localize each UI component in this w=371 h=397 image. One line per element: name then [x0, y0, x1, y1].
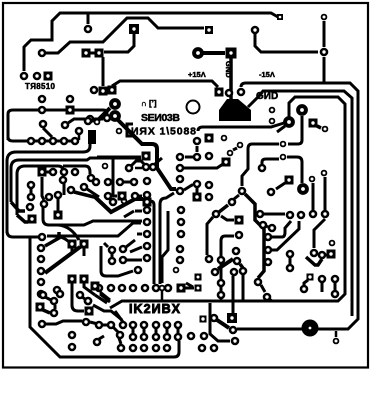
wire o4: [95, 295, 107, 303]
wire bus feed: [112, 81, 218, 87]
pad square (239,220): [235, 216, 244, 225]
wire o5: [93, 305, 122, 320]
pad square (86,53): [82, 49, 91, 58]
pad small (162,288): [159, 285, 166, 292]
wire n2: [54, 305, 57, 309]
wire n1: [45, 297, 51, 300]
pad (241,92): [237, 88, 246, 97]
pad (325,214): [321, 210, 330, 219]
pad small (97,122): [94, 119, 101, 126]
pad (97,342): [93, 338, 102, 347]
wire v2 stub: [161, 291, 164, 302]
wire y127 rail: [198, 123, 284, 131]
pad square (48,76): [44, 72, 53, 81]
wire net-A: [46, 18, 204, 53]
pad square (72,244): [68, 240, 77, 249]
pad (335,279): [331, 275, 340, 284]
wire b3: [219, 205, 228, 212]
wire c: [207, 217, 213, 255]
pad (75,141): [71, 137, 80, 146]
pad (215,272): [211, 268, 220, 277]
wire k2: [324, 177, 327, 210]
pad (144,325): [140, 321, 149, 330]
pad (168,288): [164, 284, 173, 293]
pad (181,234): [177, 230, 186, 239]
pad square (103,91): [99, 87, 108, 96]
wire row172 bar: [45, 171, 50, 174]
wire diag q: [130, 247, 142, 252]
pad (41,248): [37, 244, 46, 253]
pad (31,141): [27, 137, 36, 146]
pad (229,93): [225, 89, 234, 98]
pad (123,249): [119, 245, 128, 254]
pad (255,30): [251, 26, 260, 35]
pad (197,157): [193, 153, 202, 162]
pad (267,297): [263, 293, 272, 302]
pad (301,215): [297, 211, 306, 220]
svg-text:+15Λ: +15Λ: [188, 70, 206, 79]
pad (232,202): [228, 198, 237, 207]
pad (214,348): [210, 344, 219, 353]
pad (242,191): [238, 187, 247, 196]
pad small (230,153): [227, 150, 234, 157]
wire pad-pair bar (178,329): [177, 329, 180, 333]
pad (221,295): [217, 291, 226, 300]
wire f2: [240, 264, 243, 268]
pad (236,251): [232, 247, 241, 256]
pad small (324,173): [321, 170, 328, 177]
wire GND drop: [229, 58, 233, 99]
pad (147,181): [143, 177, 152, 186]
pad small (324,17): [321, 14, 328, 21]
svg-text:∩ [’]: ∩ [’]: [141, 99, 157, 108]
pad square (134,29): [129, 24, 139, 34]
pad (72,335): [68, 331, 77, 340]
pad square (232,318): [227, 313, 237, 323]
pad (88,121): [84, 117, 93, 126]
pad square (226,162): [222, 158, 231, 167]
pad (178,337): [174, 333, 183, 342]
pad (42,141): [38, 137, 47, 146]
wire long vertical chamfer: [30, 238, 179, 357]
pad (268,250): [264, 246, 273, 255]
pad (133,288): [129, 284, 138, 293]
pad (324,52): [320, 48, 329, 57]
wire net-B: [104, 34, 134, 52]
wire row172 drop: [63, 177, 66, 195]
wire sq stub: [83, 248, 86, 256]
pad (181,222): [177, 218, 186, 227]
svg-text:ИЯX 1\5088: ИЯX 1\5088: [131, 126, 196, 138]
pad (75,172): [71, 168, 80, 177]
wire n7: [82, 297, 85, 299]
pad (135,196): [131, 192, 140, 201]
pad (144,337): [140, 333, 149, 342]
wire pad pair v: [196, 188, 199, 193]
svg-text:SEИ03B: SEИ03B: [141, 112, 180, 124]
pad square (40,307): [36, 303, 45, 312]
pad (129,168): [125, 164, 134, 173]
wire v1: [150, 201, 154, 205]
wire GND bar: [203, 51, 225, 55]
wire pad v: [196, 146, 199, 152]
pad (167,348): [163, 344, 172, 353]
pad (99,325): [95, 321, 104, 330]
wire b2: [234, 195, 239, 199]
pad (43,295): [39, 291, 48, 300]
wire n3: [43, 310, 50, 313]
pad (180,157): [176, 153, 185, 162]
wire left top corner: [8, 110, 107, 140]
pad (290,215): [286, 211, 295, 220]
pad square (231,53): [226, 48, 237, 59]
pad small (325,129): [322, 126, 329, 133]
wire k4: [289, 258, 292, 264]
wire i2: [272, 221, 291, 237]
pad square (84,244): [80, 240, 89, 249]
pad (88,301): [84, 297, 93, 306]
wire f3: [242, 275, 245, 301]
pad small (105,166): [102, 163, 109, 170]
wire bus3 inner loop: [110, 97, 345, 308]
wire corner C2: [11, 158, 141, 202]
wire k3: [314, 219, 325, 248]
wire row-end bar: [185, 287, 194, 290]
wire padA bar: [135, 210, 142, 213]
pad (156,337): [152, 333, 161, 342]
wire y159 corner: [262, 159, 279, 164]
pad (147,246): [143, 242, 152, 251]
wire pad-pair bar (167,329): [166, 329, 169, 333]
wire bus1 tap: [323, 57, 326, 82]
pad square small (198,288): [195, 285, 202, 292]
pad (54,301): [50, 297, 59, 306]
pad small (336,341): [333, 338, 340, 345]
wire o3: [119, 338, 121, 344]
wire pad drop: [323, 21, 326, 47]
wire m4: [335, 331, 338, 337]
pad (214,318): [210, 314, 219, 323]
pad (41,259): [37, 255, 46, 264]
svg-text:TЯ8510: TЯ8510: [25, 82, 56, 91]
wire diag145: [233, 148, 237, 150]
pad (290,254): [286, 250, 295, 259]
pad (138,270): [134, 266, 143, 275]
pad (180,249): [176, 245, 185, 254]
pad (209,259): [205, 255, 214, 264]
pad (41,294): [37, 290, 46, 299]
pad (258,282): [254, 278, 263, 287]
wire elbow2: [17, 215, 28, 222]
pad square (147,202): [143, 198, 152, 207]
pad (314,253): [310, 249, 319, 258]
pad (233,330): [229, 326, 238, 335]
wire right stub: [135, 167, 142, 170]
pad square (310,277): [307, 274, 314, 281]
wire l4: [277, 126, 285, 132]
pad square (197,197): [193, 193, 202, 202]
pad square (89,311): [85, 307, 94, 316]
wire o6: [100, 294, 110, 302]
wire padC diag: [126, 240, 135, 247]
pad big (115,116): [109, 110, 121, 122]
pad (134,182): [130, 178, 139, 187]
pad (335,294): [331, 290, 340, 299]
pad (86,322): [82, 318, 91, 327]
pad (263,225): [259, 221, 268, 230]
pad square (70,110): [66, 106, 75, 115]
pad (120,182): [116, 178, 125, 187]
pad square (209,138): [205, 134, 214, 143]
wire a: [242, 144, 279, 186]
pad (156,325): [152, 321, 161, 330]
pad (64,172): [60, 168, 69, 177]
pad (147,210): [143, 206, 152, 215]
pad (37,76): [33, 72, 42, 81]
pad square (58,215): [54, 211, 63, 220]
pad (313,214): [309, 210, 318, 219]
wire i1: [266, 226, 268, 227]
wire m2: [217, 320, 229, 328]
pad (122,288): [118, 284, 127, 293]
wire o9 tail: [99, 336, 104, 339]
wire pad chain: [184, 185, 193, 190]
pad square (112,90): [108, 86, 117, 95]
wire o7: [220, 298, 223, 301]
pad (113,202): [109, 198, 118, 207]
pad (202,348): [198, 344, 207, 353]
pad (60,294): [56, 290, 65, 299]
pad (290,268): [286, 264, 295, 273]
pad (88,301): [84, 297, 93, 306]
wire n5: [90, 322, 98, 324]
wire lineA: [43, 207, 142, 225]
pad square (181,288): [177, 284, 186, 293]
pad (112,250): [108, 246, 117, 255]
pad (197,141): [193, 137, 202, 146]
pad big (115,104): [109, 98, 121, 110]
pad (147,195): [143, 191, 152, 200]
wire l1: [288, 116, 302, 144]
wire c2: [221, 216, 234, 220]
pad (221,283): [217, 279, 226, 288]
pad small (240,145): [237, 142, 244, 149]
pad (96,182): [92, 178, 101, 187]
wire hook2: [101, 246, 133, 276]
pad (41,271): [37, 267, 46, 276]
wire left row: [8, 137, 78, 141]
pad (153,167): [149, 163, 158, 172]
wire diag282: [261, 285, 265, 292]
wire diag p2: [45, 247, 80, 273]
transistor Q1 pad blob: [219, 99, 251, 121]
pad square small (198,277): [195, 274, 202, 281]
wire hook: [104, 243, 108, 247]
wire zigzag feed: [74, 192, 94, 197]
pad square (99,53): [95, 49, 104, 58]
wire o8: [269, 299, 272, 301]
pad (58,195): [54, 191, 63, 200]
pad square (72,279): [68, 275, 77, 284]
wire bus1 outer loop: [237, 83, 358, 329]
pad (272,228): [268, 224, 277, 233]
pad big (198,53): [192, 47, 204, 59]
pad (167,337): [163, 333, 172, 342]
wire diag s: [131, 161, 145, 166]
pad (64,141): [60, 137, 69, 146]
pad (156,288): [152, 284, 161, 293]
wire diag r: [100, 292, 110, 300]
wire v2: [160, 193, 174, 284]
pad (79,131): [75, 127, 84, 136]
pad (204,336): [200, 332, 209, 341]
wire padC stub: [137, 233, 142, 236]
pad (80,295): [76, 291, 85, 300]
pad (144,348): [140, 344, 149, 353]
svg-text:-15Λ: -15Λ: [259, 70, 275, 79]
wire k5: [306, 257, 322, 265]
wire bar s: [124, 181, 130, 184]
wire big diag: [97, 108, 110, 121]
pad (123,325): [119, 321, 128, 330]
pad (145,288): [141, 284, 150, 293]
pad (107,118): [103, 114, 112, 123]
wire h: [264, 213, 285, 216]
wire y166 right: [63, 166, 90, 174]
wire corner C3: [17, 166, 63, 215]
pad (31,185): [27, 181, 36, 190]
pad (53,172): [49, 168, 58, 177]
wire branch curveB: [52, 236, 69, 242]
pad (42,324): [38, 320, 47, 329]
pad (120,335): [116, 331, 125, 340]
pad (197,184): [193, 180, 202, 189]
pad square (331,254): [327, 250, 336, 259]
pad small (224,138): [221, 135, 228, 142]
pad (133,337): [129, 333, 138, 342]
wire sq drop3: [84, 283, 95, 295]
pad (65,125): [61, 121, 70, 130]
wire pair bar: [111, 254, 114, 257]
pad (180,260): [176, 256, 185, 265]
wire f: [218, 259, 233, 269]
wire sq drop: [71, 248, 74, 252]
pad (234,272): [230, 268, 239, 277]
pad (30,207): [26, 203, 35, 212]
wire zigzag: [94, 196, 143, 212]
pad (209,185): [205, 181, 214, 190]
pad (235,341): [231, 337, 240, 346]
wire l3: [317, 126, 321, 128]
wire pad link: [90, 52, 95, 55]
pad (42,110): [38, 106, 47, 115]
pad (221,260): [217, 256, 226, 265]
wire col drop: [42, 177, 44, 200]
wire main center: [118, 120, 176, 189]
pad (180,168): [176, 164, 185, 173]
wire k8: [321, 283, 324, 292]
pad big (289,122): [283, 116, 295, 128]
pad (180,179): [176, 175, 185, 184]
wire n8: [72, 283, 84, 311]
pad square (146,156): [142, 152, 151, 161]
wire m1: [210, 303, 230, 341]
wire g: [186, 283, 193, 287]
pad (147,258): [143, 254, 152, 263]
wire bus2 mid loop: [248, 91, 352, 316]
pad (91,178): [87, 174, 96, 183]
pad (209,197): [205, 193, 214, 202]
pad big (302,110): [296, 104, 308, 116]
wire bar s2: [139, 195, 142, 198]
pad (42,53): [38, 49, 47, 58]
pad (44,204): [40, 200, 49, 209]
pad (41,282): [37, 278, 46, 287]
pad (146,167): [142, 163, 151, 172]
pad (167,325): [163, 321, 172, 330]
pad (322,255): [318, 251, 327, 260]
wire text-bracket: [127, 124, 133, 136]
pad small square no-hole: [277, 14, 283, 20]
wire elbow: [11, 202, 25, 211]
pad small (283,157): [280, 154, 287, 161]
pad (271,192): [267, 188, 276, 197]
pad small (119,131): [116, 128, 123, 135]
pad square (313,123): [309, 119, 318, 128]
pad (57,290): [53, 286, 62, 295]
svg-text:IK2ИBX: IK2ИBX: [129, 302, 181, 316]
via big filled dot: [302, 320, 319, 337]
wire mid vert: [112, 158, 115, 197]
pad big (303,189): [297, 183, 309, 195]
pad square (289,180): [285, 176, 294, 185]
pad square (95,286): [91, 282, 100, 291]
wire i3: [272, 221, 299, 250]
wire padA diag: [124, 211, 134, 217]
pad (239,235): [235, 231, 244, 240]
pad (24,76): [20, 72, 29, 81]
wire o1: [115, 311, 123, 322]
wire vert: [102, 57, 105, 86]
pad (108,182): [104, 178, 113, 187]
wire top-rail: [24, 13, 278, 71]
wire y168 ext: [184, 162, 226, 168]
wire branch curveA: [58, 225, 79, 240]
wire j: [276, 183, 285, 189]
pad (111,325): [107, 321, 116, 330]
svg-text:GND: GND: [224, 61, 233, 78]
wire v3: [162, 211, 168, 283]
pad small (332,243): [329, 240, 336, 247]
wire pair185 bar: [30, 189, 33, 193]
wire k1: [312, 183, 315, 210]
wire zigzag feed2: [87, 189, 99, 197]
wire b: [245, 194, 264, 278]
pad (191,336): [187, 332, 196, 341]
wire pad bar: [185, 156, 193, 159]
pad (84,187): [80, 183, 89, 192]
wire +15 rail: [255, 34, 318, 52]
wire bar q: [127, 259, 142, 262]
svg-text:GИD: GИD: [256, 91, 278, 102]
wire corner C1: [7, 131, 90, 233]
wire stub pad: [87, 13, 90, 24]
pad square (209,30): [205, 26, 213, 34]
pad (99,288): [95, 284, 104, 293]
pad small (272,110): [269, 107, 276, 114]
wire lineB: [47, 223, 141, 236]
pad (147,234): [143, 230, 152, 239]
